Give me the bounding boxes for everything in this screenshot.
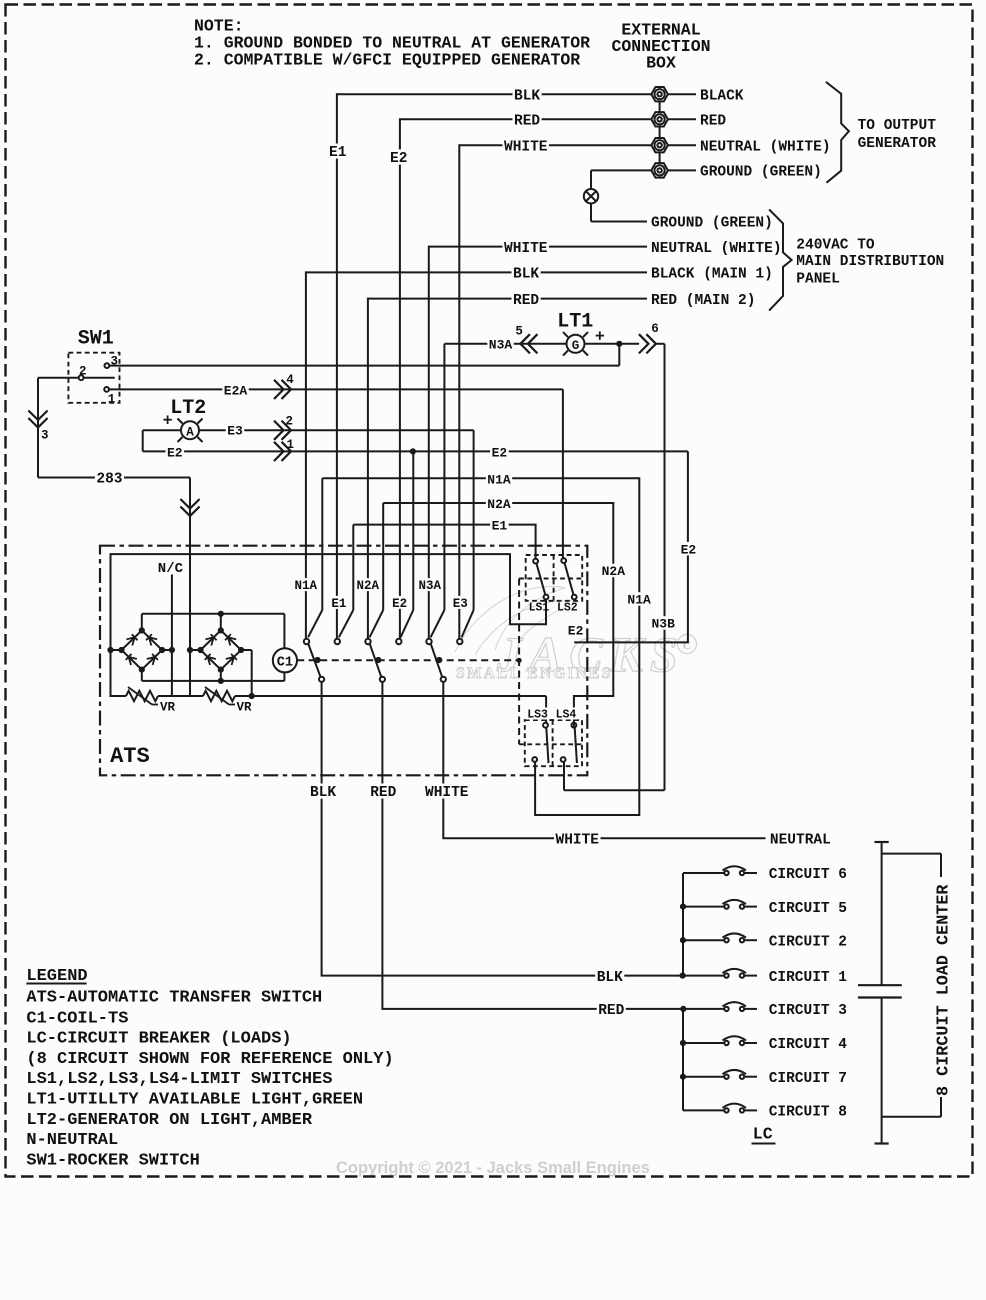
wire N1A row: [322, 472, 639, 815]
terminal 4: [651, 163, 668, 177]
mechanical linkage vertical to limit switches: [517, 579, 522, 745]
svg-text:PANEL: PANEL: [796, 272, 840, 288]
svg-text:BLK: BLK: [514, 88, 540, 104]
svg-text:C1-COIL-TS: C1-COIL-TS: [26, 1009, 128, 1028]
wire ground lamp to ground green label: [591, 203, 647, 221]
connector arrow 2: [274, 415, 293, 440]
watermark jacks small engines (decorative): [455, 586, 697, 682]
label BLACK (MAIN 1): [651, 267, 773, 283]
label BLACK: [668, 88, 744, 104]
svg-text:BLACK: BLACK: [700, 88, 744, 104]
junction load bus: [680, 937, 686, 943]
SW1 contact 3: [105, 363, 110, 368]
varistor VR1: [126, 687, 176, 715]
mechanical linkage from C1: [297, 659, 519, 661]
svg-text:N/C: N/C: [158, 561, 184, 577]
ATS switch 3 contacts: [426, 639, 462, 682]
wire E1 vertical: [328, 93, 348, 639]
svg-text:N3A: N3A: [489, 338, 513, 353]
svg-text:(8 CIRCUIT SHOWN FOR REFERENCE: (8 CIRCUIT SHOWN FOR REFERENCE ONLY): [26, 1050, 393, 1069]
wire to ATS contact E1 (angled): [339, 525, 353, 638]
limit switch box LS3 LS4: [519, 720, 582, 766]
label N3B on vertical: [650, 616, 676, 632]
junction load bus: [680, 1040, 686, 1046]
SW1 lever: [84, 377, 115, 379]
label GROUND (GREEN): [668, 165, 822, 181]
ATS switch 3 linkage junction: [436, 657, 442, 663]
label N2A on vertical: [600, 564, 626, 580]
varistor VR2: [203, 687, 252, 715]
svg-text:2: 2: [79, 364, 87, 378]
wire N2A row: [383, 497, 613, 728]
limit switch box LS1 LS2: [519, 555, 582, 601]
svg-text:E2A: E2A: [224, 383, 248, 398]
svg-text:N2A: N2A: [602, 564, 626, 579]
label E2 at LS2 bottom: [566, 623, 585, 639]
wire E2 vertical to LS2 bottom: [574, 451, 697, 642]
label NEUTRAL (WHITE) main: [651, 241, 782, 257]
SW1 pin label 3: [110, 355, 118, 369]
brace 240vac main panel: [769, 209, 792, 310]
label TO OUTPUT GENERATOR: [858, 118, 937, 152]
circuit breaker CIRCUIT 6: [683, 866, 847, 883]
svg-text:VR: VR: [237, 701, 253, 715]
watermark copyright line (decorative): [336, 1159, 650, 1177]
wire bridges top rail to coil C1: [142, 611, 285, 649]
SW1 pin label 2: [79, 364, 87, 378]
svg-text:CIRCUIT 2: CIRCUIT 2: [769, 934, 847, 950]
bridge rectifier 1: [118, 627, 165, 672]
svg-text:E3: E3: [227, 424, 243, 439]
wire SW1 pin1 E2A: [109, 383, 563, 399]
wire to ATS coil contact E2 (angled): [401, 451, 414, 637]
label ATS: [110, 744, 150, 769]
svg-text:WHITE: WHITE: [504, 241, 548, 257]
terminal 2: [651, 112, 668, 126]
ATS enclosure dashed box: [100, 546, 587, 776]
svg-text:1: 1: [108, 392, 116, 406]
wire bridge1 right to N/C wire: [162, 647, 175, 653]
circuit breaker CIRCUIT 2: [683, 933, 847, 950]
svg-text:BOX: BOX: [646, 53, 676, 72]
wire neutral bus (inner box): [111, 554, 547, 723]
load center right bus lower: [881, 998, 883, 1144]
svg-text:6: 6: [651, 322, 659, 336]
limit switch LS1: [533, 559, 548, 600]
label SW1: [78, 328, 114, 351]
junction RED at load bus: [680, 1006, 686, 1012]
svg-text:LC: LC: [753, 1125, 773, 1144]
label ATS contact E3: [451, 596, 469, 611]
svg-text:E2: E2: [681, 542, 697, 557]
svg-text:N1A: N1A: [627, 593, 651, 608]
label LS1: [529, 602, 550, 615]
svg-text:LT1: LT1: [557, 310, 593, 333]
wire to ATS contact N1A (angled): [308, 478, 322, 637]
svg-text:E2: E2: [167, 445, 183, 460]
ATS switch 1 lever: [308, 644, 320, 677]
svg-text:N3B: N3B: [652, 617, 676, 632]
circuit breaker CIRCUIT 5: [683, 900, 847, 917]
ATS switch 1 contacts: [304, 639, 340, 682]
svg-text:WHITE: WHITE: [556, 833, 600, 849]
svg-text:NEUTRAL (WHITE): NEUTRAL (WHITE): [700, 139, 831, 155]
wire 283 vertical into ATS: [189, 478, 191, 697]
connector arrow on wire 283: [180, 499, 199, 516]
svg-text:BLK: BLK: [513, 267, 539, 283]
wire E2 vertical: [389, 118, 409, 638]
junction E2 row to ATS coil contact: [410, 448, 416, 454]
svg-text:WHITE: WHITE: [504, 139, 548, 155]
load center right bus top cap: [875, 841, 889, 843]
bridge rectifier 2: [197, 627, 244, 672]
svg-text:RED: RED: [514, 114, 540, 130]
wire SW1 pin2 to connector 3: [38, 378, 79, 478]
svg-text:NEUTRAL (WHITE): NEUTRAL (WHITE): [651, 241, 782, 257]
svg-text:GENERATOR: GENERATOR: [858, 136, 937, 152]
wire WHITE to terminal 3: [459, 138, 651, 156]
wire E2 row: [143, 445, 688, 461]
svg-text:3: 3: [41, 429, 49, 443]
wire white neutral vertical: [428, 246, 430, 639]
label NEUTRAL: [770, 833, 831, 849]
label LC: [752, 1125, 776, 1144]
label 240VAC TO MAIN DISTRIBUTION PANEL: [796, 238, 944, 288]
junction LT1 output: [616, 341, 622, 347]
wire N3B vertical: [656, 344, 665, 791]
label LS4: [554, 708, 578, 722]
svg-text:BLK: BLK: [310, 785, 336, 801]
SW1 contact 2: [79, 375, 84, 380]
svg-text:E1: E1: [331, 597, 346, 611]
svg-text:SW1: SW1: [78, 328, 114, 351]
LT1 plus sign: [596, 331, 605, 340]
coil C1: [273, 648, 297, 672]
svg-text:LT1-UTILLTY AVAILABLE LIGHT,GR: LT1-UTILLTY AVAILABLE LIGHT,GREEN: [26, 1091, 363, 1110]
load center right bus bottom cap: [875, 1142, 889, 1144]
label ATS contact E2: [391, 596, 409, 611]
svg-text:E1: E1: [329, 145, 347, 161]
svg-text:4: 4: [286, 373, 294, 387]
label RED (MAIN 2): [651, 293, 755, 309]
svg-text:N2A: N2A: [487, 497, 511, 512]
label GROUND (GREEN) main: [651, 216, 773, 232]
limit switch LS2: [561, 558, 576, 599]
wire red main2 vertical: [367, 298, 369, 639]
circuit breaker CIRCUIT 3: [683, 1002, 847, 1019]
wire to ATS contact N2A (angled): [370, 503, 384, 637]
svg-text:E2: E2: [392, 597, 407, 611]
load center right bus upper: [881, 842, 883, 985]
indicator lamp LT1: [563, 332, 588, 355]
load center bus (black leg): [682, 873, 684, 976]
wire bridges bottom rail to coil C1: [142, 670, 285, 684]
label RED: [668, 114, 726, 130]
wire bridge2 left to 283 wire: [187, 647, 201, 653]
svg-text:SMALL ENGINES: SMALL ENGINES: [456, 665, 613, 682]
wire WHITE output to neutral: [424, 682, 766, 849]
svg-text:BLK: BLK: [597, 970, 623, 986]
circuit breaker CIRCUIT 7: [683, 1070, 847, 1087]
terminal 1: [651, 87, 668, 101]
svg-text:8 CIRCUIT LOAD CENTER: 8 CIRCUIT LOAD CENTER: [935, 884, 954, 1096]
note text block: [194, 16, 590, 69]
svg-text:MAIN DISTRIBUTION: MAIN DISTRIBUTION: [796, 254, 944, 270]
wire WHITE output vertical: [458, 144, 460, 639]
wire bridge1 left to bus: [107, 647, 121, 653]
wire load center label bottom to bus: [882, 1097, 941, 1117]
wire 283: [38, 470, 190, 488]
svg-text:RED: RED: [370, 785, 396, 801]
svg-text:LS4: LS4: [556, 709, 577, 722]
svg-text:TO OUTPUT: TO OUTPUT: [858, 118, 937, 134]
wire LT2 negative to E2 row: [143, 430, 181, 451]
ATS switch 2 lever: [370, 644, 381, 677]
wire red main 2: [368, 291, 647, 309]
wire to ATS contact E3 (angled): [462, 430, 474, 637]
svg-text:LS3: LS3: [527, 709, 548, 722]
load center bus split bars: [858, 985, 902, 997]
svg-text:LS2: LS2: [557, 602, 578, 615]
svg-text:RED: RED: [513, 293, 539, 309]
wire LT2 positive E3: [199, 423, 474, 439]
label LS2: [557, 602, 578, 615]
wire E2 (RED to terminal 2): [400, 112, 652, 130]
load center bus (red leg): [682, 1009, 684, 1111]
svg-text:2: 2: [285, 415, 293, 429]
svg-text:E1: E1: [492, 518, 508, 533]
label LT1: [557, 310, 593, 333]
junction load bus: [680, 904, 686, 910]
wire bus to load center label top: [882, 854, 941, 877]
svg-text:A: A: [186, 425, 194, 439]
label 8 CIRCUIT LOAD CENTER: [935, 884, 954, 1096]
svg-text:N1A: N1A: [295, 579, 318, 593]
svg-text:CIRCUIT 7: CIRCUIT 7: [769, 1071, 847, 1087]
wire SW1 pin3 to LT1 junction: [109, 344, 619, 366]
wire to ATS contact N3A (angled): [431, 344, 445, 638]
label ATS contact E1: [330, 596, 348, 611]
svg-text:ATS: ATS: [110, 744, 150, 769]
wire E1 (BLK to terminal 1): [337, 87, 652, 105]
limit switch LS4: [561, 723, 577, 763]
label LS3: [526, 708, 550, 722]
svg-text:VR: VR: [160, 701, 176, 715]
ATS switch 2 linkage junction: [375, 657, 381, 663]
external connection box label: [611, 21, 710, 73]
svg-text:C1: C1: [277, 655, 293, 670]
wire neutral white main: [429, 239, 647, 257]
junction BLK at load bus: [680, 973, 686, 979]
circuit breaker CIRCUIT 8: [683, 1104, 847, 1121]
svg-text:CIRCUIT 5: CIRCUIT 5: [769, 901, 847, 917]
svg-text:1: 1: [287, 438, 295, 452]
connector arrow 6: [639, 322, 659, 354]
wire LT1 to connector 6: [585, 343, 640, 345]
svg-text:N3A: N3A: [419, 579, 442, 593]
indicator lamp LT2: [178, 419, 203, 443]
label N/C: [158, 561, 184, 577]
limit switch LS3: [532, 723, 548, 763]
svg-text:WHITE: WHITE: [425, 785, 469, 801]
svg-text:LT2-GENERATOR ON LIGHT,AMBER: LT2-GENERATOR ON LIGHT,AMBER: [26, 1111, 312, 1130]
svg-text:283: 283: [96, 472, 122, 488]
wire RED output: [369, 682, 684, 1019]
ATS switch 2 contacts: [365, 639, 401, 682]
svg-text:CIRCUIT 4: CIRCUIT 4: [769, 1037, 848, 1053]
wire N3A to LT1: [444, 337, 566, 353]
svg-text:SW1-ROCKER SWITCH: SW1-ROCKER SWITCH: [26, 1151, 199, 1170]
svg-text:BLACK (MAIN 1): BLACK (MAIN 1): [651, 267, 773, 283]
svg-text:LT2: LT2: [170, 397, 206, 420]
connector arrow 4: [274, 373, 294, 399]
svg-text:E2: E2: [568, 623, 584, 638]
svg-text:ATS-AUTOMATIC TRANSFER SWITCH: ATS-AUTOMATIC TRANSFER SWITCH: [26, 988, 322, 1007]
circuit breaker CIRCUIT 1: [683, 969, 847, 986]
svg-text:E2: E2: [390, 151, 407, 167]
terminal 3: [651, 138, 668, 152]
wire E1 row to LS1: [353, 518, 535, 559]
wire N/C vertical: [171, 575, 173, 697]
wire bridge2 right down to bus: [241, 650, 255, 699]
wire black main1 vertical: [305, 271, 307, 638]
svg-text:RED: RED: [700, 114, 726, 130]
label NEUTRAL (WHITE): [668, 139, 831, 155]
svg-text:N-NEUTRAL: N-NEUTRAL: [26, 1131, 118, 1150]
SW1 contact 1: [104, 387, 109, 392]
label ATS contact N2A: [355, 578, 381, 593]
wire N3B to LS4 bottom: [564, 762, 665, 790]
wire black main 1: [306, 265, 647, 283]
svg-text:RED: RED: [598, 1003, 624, 1019]
wire terminal 4 to ground lamp: [591, 170, 651, 189]
svg-text:2. COMPATIBLE W/GFCI EQUIPPED: 2. COMPATIBLE W/GFCI EQUIPPED GENERATOR: [194, 50, 580, 69]
svg-text:LS1: LS1: [529, 602, 550, 615]
svg-text:CIRCUIT 6: CIRCUIT 6: [769, 867, 847, 883]
connector arrow 5: [515, 324, 537, 353]
LT2 plus sign: [163, 416, 172, 425]
ground indicator (circle-X): [584, 189, 598, 203]
svg-text:CIRCUIT 3: CIRCUIT 3: [769, 1003, 847, 1019]
label ATS contact N1A: [293, 578, 319, 593]
legend text block: [26, 967, 393, 1170]
svg-text:RED (MAIN 2): RED (MAIN 2): [651, 293, 755, 309]
circuit breaker CIRCUIT 4: [683, 1036, 847, 1053]
svg-text:E2: E2: [492, 445, 508, 460]
svg-text:N2A: N2A: [357, 579, 380, 593]
svg-text:E3: E3: [453, 597, 468, 611]
terminal interconnect wire: [659, 94, 661, 170]
svg-text:5: 5: [515, 324, 523, 338]
svg-text:NEUTRAL: NEUTRAL: [770, 833, 831, 849]
junction load bus: [680, 1074, 686, 1080]
svg-text:N1A: N1A: [487, 473, 511, 488]
svg-text:GROUND (GREEN): GROUND (GREEN): [700, 165, 822, 181]
label LT2: [170, 397, 206, 420]
svg-text:GROUND (GREEN): GROUND (GREEN): [651, 216, 773, 232]
rocker switch SW1 box: [68, 353, 119, 403]
ATS switch 1 linkage junction: [314, 657, 320, 663]
label N1A on vertical: [626, 592, 652, 608]
wire E2A vertical to LS2: [562, 389, 564, 558]
brace to output generator: [826, 82, 849, 183]
svg-text:LS1,LS2,LS3,LS4-LIMIT SWITCHES: LS1,LS2,LS3,LS4-LIMIT SWITCHES: [26, 1070, 332, 1089]
svg-text:CIRCUIT 8: CIRCUIT 8: [769, 1105, 847, 1121]
svg-text:LC-CIRCUIT BREAKER (LOADS): LC-CIRCUIT BREAKER (LOADS): [26, 1030, 291, 1049]
connector arrow 1: [274, 438, 294, 461]
svg-text:G: G: [572, 339, 580, 353]
label ATS contact N3A: [417, 578, 443, 593]
connector arrow 3: [28, 411, 48, 443]
ATS switch 3 lever: [431, 644, 442, 677]
svg-text:Copyright © 2021 - Jacks Small: Copyright © 2021 - Jacks Small Engines: [336, 1159, 650, 1177]
svg-text:240VAC TO: 240VAC TO: [796, 238, 875, 254]
SW1 pin label 1: [108, 392, 116, 406]
wire BLK output: [309, 682, 683, 986]
svg-text:CIRCUIT 1: CIRCUIT 1: [769, 970, 848, 986]
